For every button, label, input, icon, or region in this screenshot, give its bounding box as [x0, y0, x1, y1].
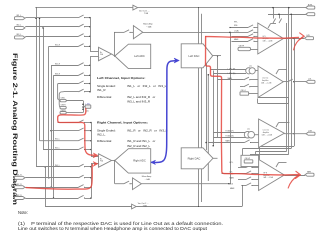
wire T1 out	[284, 38, 305, 40]
wire T3 rows	[213, 132, 248, 134]
op-amp right PGA	[99, 154, 112, 167]
svg-text:HPL: HPL	[307, 35, 311, 37]
wire T3 out	[284, 133, 306, 135]
wire T4 out	[284, 175, 305, 177]
svg-text:0dB ... +12dB: 0dB ... +12dB	[263, 177, 273, 179]
pin IN3_L	[14, 36, 25, 39]
node col L plus	[90, 18, 92, 51]
terminal CM1L	[60, 99, 66, 101]
wire row L y=75.3	[54, 75, 79, 77]
pin LOL out	[306, 80, 315, 83]
svg-text:Figure 2-1. Analog Routing Dia: Figure 2-1. Analog Routing Diagram	[11, 53, 18, 206]
pin IN1_L	[14, 17, 25, 20]
wire var out 1 line	[36, 7, 306, 9]
terminal CM2R	[60, 112, 66, 114]
wire row R y=130.6	[51, 130, 79, 132]
wire RPGA-ADC node	[112, 160, 115, 162]
red path mic loop	[58, 109, 94, 156]
svg-text:Right DAC: Right DAC	[188, 156, 201, 160]
dac Right DAC	[181, 148, 213, 169]
svg-text:IN1_L or IN2_L or IN3_: IN1_L or IN2_L or IN3_L	[127, 84, 167, 88]
adc Left ADC	[115, 44, 151, 68]
blue path ADC to DAC	[152, 61, 176, 163]
wire mixer L out	[143, 31, 230, 33]
svg-text:0dB ... +1.2dB: 0dB ... +1.2dB	[262, 134, 272, 136]
op-amp T1 HP amp	[258, 23, 284, 54]
wire bus R2	[288, 8, 290, 154]
wire T4 top switch	[276, 163, 279, 168]
wire PGA-ADC node	[112, 54, 115, 56]
svg-text:HPL,: HPL,	[234, 22, 238, 24]
red arrow T1 out	[294, 37, 303, 50]
svg-text:IN2_L: IN2_L	[16, 25, 21, 27]
svg-text:CM LO: CM LO	[241, 90, 247, 92]
adc Right ADC	[115, 149, 151, 173]
svg-text:IN3_L and IN3_R: IN3_L and IN3_R	[127, 100, 151, 104]
capacitor CM LO T2	[240, 92, 249, 95]
svg-text:HPL,: HPL,	[230, 162, 234, 164]
svg-text:IN1_R: IN1_R	[55, 44, 61, 46]
red path T1 through	[206, 37, 299, 39]
wire bus R3	[291, 14, 293, 148]
wire row L y=91.8	[64, 91, 79, 93]
pin AUX A	[306, 6, 315, 9]
wire bus A2	[39, 18, 41, 141]
red path DAC to HP amps	[206, 37, 233, 174]
capacitor CM HP T4	[241, 155, 259, 166]
svg-text:HPR: HPR	[307, 172, 312, 174]
pin HPR out	[305, 173, 314, 176]
wire row R y=166.8	[36, 166, 79, 168]
svg-text:CM HP: CM HP	[239, 46, 245, 48]
svg-text:IN3_L: IN3_L	[16, 34, 21, 36]
wire row L y=17.6	[25, 17, 78, 19]
wire row L y=83.5	[61, 83, 79, 85]
svg-text:(1): (1)	[249, 65, 252, 67]
svg-text:IN1_L: IN1_L	[55, 139, 60, 141]
svg-text:IN2_R: IN2_R	[55, 63, 61, 65]
wire bus M4	[207, 75, 209, 181]
pot T3 (1)	[244, 131, 251, 138]
wire var2 feed	[45, 167, 47, 207]
wire mixer bus	[230, 32, 232, 183]
svg-text:CM2R: CM2R	[61, 110, 67, 112]
op-amp left PGA	[99, 47, 112, 60]
pin LOR out	[306, 132, 315, 135]
wire row R y=177.8	[25, 177, 78, 179]
svg-text:TGB: TGB	[144, 13, 149, 15]
pot T2 (1)	[246, 68, 252, 74]
svg-text:L DAC: L DAC	[234, 29, 240, 32]
wire row R y=122.5	[58, 122, 79, 124]
wire T2 top switch	[276, 70, 279, 75]
svg-text:(1): (1)	[247, 128, 250, 130]
op-amp mixer amp R	[133, 178, 142, 190]
svg-text:Note:: Note:	[18, 210, 28, 215]
wire riser IN1_R	[48, 46, 50, 178]
dac Left DAC	[181, 44, 213, 68]
wire bus M1	[198, 8, 200, 207]
svg-text:Line out switches to N termina: Line out switches to N terminal when Hea…	[18, 226, 208, 231]
wire T2 rows	[210, 69, 246, 71]
wire bus A3	[43, 28, 45, 150]
svg-text:LOL: LOL	[308, 79, 312, 81]
wire row L y=46.3	[49, 46, 79, 48]
wire bus R1	[286, 23, 288, 152]
buffer U5 Var Out 1	[133, 5, 138, 10]
svg-text:TGB: TGB	[143, 206, 148, 208]
node col R minus	[91, 163, 93, 198]
op-amp T4 HP amp	[259, 159, 285, 190]
svg-text:R DAC (N): R DAC (N)	[226, 135, 234, 138]
svg-text:IN2_R: IN2_R	[16, 184, 22, 186]
red path IN2_R to PGA	[26, 165, 92, 190]
wire T2 fb	[258, 97, 289, 99]
wire T3 top switch	[276, 123, 279, 128]
terminal CM1R	[60, 106, 66, 108]
wire CM1L loop	[58, 84, 61, 101]
wire row L y=36.3	[25, 36, 78, 38]
red path T4 through	[232, 174, 299, 175]
svg-text:Left ADC: Left ADC	[134, 54, 145, 58]
wire T4 rows	[238, 167, 246, 169]
pin IN2_R	[14, 186, 25, 189]
wire row R y=187.2	[25, 187, 78, 189]
wire mixer L input	[114, 32, 116, 56]
wire row R y=198	[25, 198, 78, 200]
svg-text:IN3_L: IN3_L	[55, 165, 60, 167]
svg-text:Mic: Mic	[100, 159, 103, 161]
svg-text:Left DAC: Left DAC	[189, 54, 200, 58]
svg-text:IN3_R: IN3_R	[16, 195, 22, 197]
wire row R y=140.7	[40, 140, 79, 142]
svg-text:Right Channel, Input Options:: Right Channel, Input Options:	[97, 121, 148, 125]
wire riser IN2_R	[51, 65, 53, 187]
svg-text:Right ADC: Right ADC	[133, 159, 146, 163]
red arrow T4 out	[288, 175, 298, 188]
svg-text:CM1R: CM1R	[61, 105, 67, 107]
wire bus M2	[201, 14, 203, 202]
component mic select	[83, 106, 85, 108]
svg-text:CM HP: CM HP	[245, 158, 251, 160]
pin HPL out	[305, 37, 314, 40]
svg-text:IN1_R or IN2_R or IN3_: IN1_R or IN2_R or IN3_R	[127, 128, 169, 132]
svg-text:Mic: Mic	[100, 52, 103, 54]
wire bus M5	[213, 71, 215, 146]
svg-text:L DAC (N): L DAC (N)	[228, 72, 236, 75]
svg-text:− 6dB: − 6dB	[146, 26, 152, 28]
svg-text:SWL: SWL	[234, 25, 238, 27]
op-amp mixer amp L	[133, 26, 142, 39]
svg-text:+ −: + −	[100, 57, 102, 59]
wire CM2R loop	[67, 112, 84, 114]
wire T1 top feedback	[268, 14, 306, 16]
wire var out 2 line	[45, 206, 242, 208]
svg-text:0dB ... +1.2dB: 0dB ... +1.2dB	[261, 82, 271, 84]
svg-text:Mixer Amp: Mixer Amp	[142, 175, 152, 178]
svg-text:− 6dB: − 6dB	[145, 179, 151, 181]
svg-text:IN2_L and IN2_R or: IN2_L and IN2_R or	[127, 95, 155, 99]
wire rdac out stub	[213, 157, 218, 159]
svg-text:IN2_R and IN2_L: IN2_R and IN2_L	[127, 144, 151, 148]
wire mixer R out	[141, 183, 230, 185]
pin IN1_R	[14, 176, 25, 179]
svg-text:+ −: + −	[100, 163, 102, 165]
buffer U6 Var Out 2	[132, 204, 137, 209]
wire mixer R input	[114, 161, 116, 184]
pin AUX B	[306, 13, 315, 16]
op-amp T2 line out L	[258, 66, 283, 98]
svg-text:LOR: LOR	[308, 131, 313, 133]
svg-text:IN1_R: IN1_R	[16, 175, 22, 177]
wire bus M3	[206, 56, 208, 150]
svg-text:L DAC (P): L DAC (P)	[228, 68, 236, 71]
wire ldac out stub	[213, 55, 221, 57]
svg-text:IN1_L: IN1_L	[16, 15, 21, 17]
wire row R y=149.5	[43, 149, 79, 151]
wire row L y=26.8	[25, 26, 78, 28]
node col L minus	[90, 57, 92, 92]
wire row L y=65.3	[51, 65, 79, 67]
svg-text:0dB ... +12dB: 0dB ... +12dB	[263, 41, 273, 43]
svg-text:IN1_R: IN1_R	[97, 88, 106, 92]
wire T2 out	[283, 81, 287, 83]
capacitor CM HP T1	[238, 47, 251, 50]
svg-text:IN3_R: IN3_R	[55, 73, 61, 75]
svg-text:Differential: Differential	[97, 95, 112, 99]
wire bus A1	[36, 8, 38, 167]
svg-text:L SEL: L SEL	[85, 103, 90, 105]
wire bus R4	[294, 39, 296, 147]
svg-text:Left Channel, Input Options:: Left Channel, Input Options:	[97, 76, 146, 80]
pin IN2_L	[14, 26, 25, 29]
wire CM1R loop	[59, 92, 63, 108]
svg-text:IN1_R and IN1_L or: IN1_R and IN1_L or	[127, 139, 155, 143]
svg-text:CM1L: CM1L	[61, 98, 66, 100]
wire T1 rows	[230, 27, 248, 29]
wire bus M6	[217, 56, 219, 138]
svg-text:IN2_L.: IN2_L.	[97, 132, 106, 136]
svg-text:R DAC (P): R DAC (P)	[226, 130, 234, 133]
svg-text:AUXL: AUXL	[308, 3, 313, 6]
node col R plus	[91, 123, 93, 157]
svg-text:Differential: Differential	[97, 139, 112, 143]
svg-text:IN2_L: IN2_L	[55, 148, 60, 150]
op-amp T3 line out R	[259, 119, 285, 148]
wire riser IN3_R	[53, 75, 55, 198]
pin IN3_R	[14, 197, 25, 200]
svg-text:Mixer Amp: Mixer Amp	[143, 23, 153, 26]
